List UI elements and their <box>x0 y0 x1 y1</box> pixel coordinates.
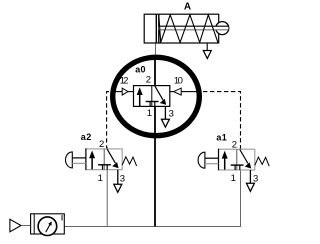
svg-text:2: 2 <box>232 139 237 150</box>
svg-text:2: 2 <box>99 139 104 150</box>
svg-text:2: 2 <box>146 75 151 86</box>
svg-text:3: 3 <box>120 173 125 184</box>
svg-text:1: 1 <box>147 108 152 119</box>
svg-text:3: 3 <box>253 174 258 185</box>
svg-text:12: 12 <box>120 75 129 86</box>
svg-text:a2: a2 <box>81 132 92 142</box>
svg-text:1: 1 <box>231 173 236 184</box>
svg-text:1: 1 <box>98 173 103 184</box>
svg-text:10: 10 <box>174 75 183 86</box>
svg-text:a1: a1 <box>216 132 227 142</box>
svg-text:A: A <box>184 2 191 13</box>
svg-text:3: 3 <box>169 108 174 119</box>
svg-text:a0: a0 <box>135 65 146 75</box>
